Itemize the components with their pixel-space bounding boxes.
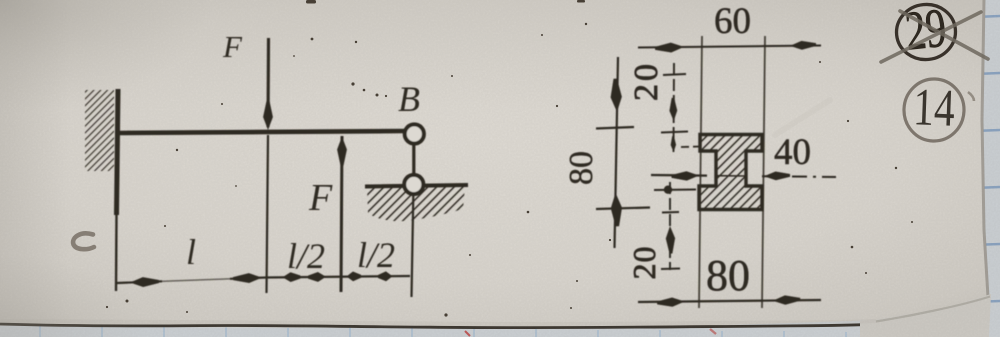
- 40 dim dash-dot line: [651, 174, 707, 177]
- arrowhead down force: [263, 101, 273, 130]
- left edge darker shading: [0, 0, 70, 326]
- extension below beam at F: [267, 135, 269, 293]
- red ticks below edge: [465, 331, 470, 336]
- force F up arrow: [341, 136, 342, 292]
- circled 29 ink: [893, 0, 958, 63]
- svg-text:l/2: l/2: [357, 235, 395, 275]
- left dim 80 vertical: [615, 57, 619, 248]
- dimension line l + l/2 + l/2: [117, 281, 162, 283]
- ground hatch: [367, 187, 465, 222]
- under-sheet pale paper bottom-right: [860, 294, 991, 337]
- sheet right edge shadow: [982, 0, 988, 297]
- bottom dark edge line of sheet: [0, 324, 876, 328]
- corner shading: [0, 0, 1, 1]
- svg-text:B: B: [398, 79, 420, 119]
- tick top 20 lower: [661, 132, 688, 133]
- arrowheads dim l/2 #2: [346, 271, 361, 281]
- ground line at B support: [365, 185, 468, 187]
- beam: [117, 131, 405, 133]
- tick bottom: [661, 268, 680, 271]
- top dim line 60: [638, 46, 821, 48]
- top 20 dim vertical: [673, 63, 676, 152]
- small diamond arrow at section top: [670, 136, 676, 152]
- pencil squiggle bottom-left: [73, 233, 94, 249]
- tick ext bottom (section bottom): [596, 208, 650, 210]
- tick top 20 upper: [663, 74, 686, 75]
- blue vertical lines bottom strip: [40, 326, 846, 337]
- svg-text:14: 14: [912, 79, 955, 138]
- arrowheads dim l: [130, 277, 159, 288]
- blue grid of notebook: horizontal lines right margin: [972, 16, 1000, 302]
- upper pin circle: [405, 124, 424, 143]
- soft shadow above bottom edge: [0, 321, 876, 324]
- bottom dim line 80: [638, 300, 821, 302]
- circled 14 pencil: [903, 78, 965, 142]
- pencil X over 29: [881, 11, 988, 62]
- svg-text:l/2: l/2: [287, 236, 325, 276]
- faint smudge right figure: [775, 100, 830, 135]
- extension below support: [412, 196, 414, 297]
- svg-text:20: 20: [626, 246, 662, 280]
- svg-text:80: 80: [706, 251, 750, 300]
- speckles: [106, 0, 913, 317]
- dash toward section: [681, 146, 700, 149]
- wall extension line down: [115, 215, 118, 291]
- link between pins: [412, 140, 415, 180]
- I-section outline + hatch: [699, 135, 762, 210]
- bottom 20 dim: H line with dot arrow: [654, 189, 696, 192]
- svg-text:60: 60: [714, 1, 751, 42]
- wall edge thick line: [117, 89, 119, 215]
- arrowheads dim l/2 #1: [282, 272, 300, 282]
- svg-text:80: 80: [563, 151, 600, 185]
- bottom 20 vertical: [669, 182, 671, 270]
- svg-text:l: l: [186, 232, 196, 272]
- pencil tick right of 14: [968, 92, 974, 101]
- force F down line: [266, 38, 270, 127]
- svg-text:20: 20: [628, 61, 665, 101]
- fixed wall hatch: [85, 90, 114, 171]
- tick mid: [662, 211, 679, 214]
- svg-text:40: 40: [774, 132, 811, 173]
- extension vertical left (section width 60): [699, 36, 702, 308]
- lower pin circle: [404, 175, 423, 194]
- svg-text:F: F: [308, 177, 333, 219]
- extension vertical right: [762, 36, 765, 308]
- svg-text:F: F: [222, 29, 243, 64]
- tick ext top (section top): [596, 127, 634, 129]
